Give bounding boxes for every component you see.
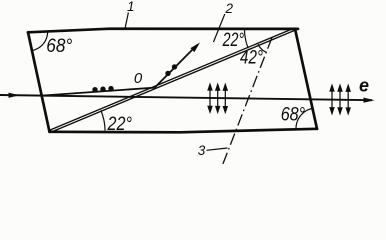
leader of label 1 [125,13,128,29]
svg-text:68°: 68° [281,105,306,126]
optic axis line 3 (dash-dot) [223,38,272,165]
svg-text:1: 1 [127,0,135,14]
leader of label 2 [214,14,225,42]
svg-text:2: 2 [225,1,234,16]
prism outline (calcite rhomb, faces) [28,29,317,133]
arrowhead on incident ray [9,93,20,98]
ordinary ray segment 1 (entry point to balsam cut) [42,88,155,96]
angle arc 68 bottom-right [296,108,312,128]
svg-text:0: 0 [134,70,143,87]
leader of label 3 [207,148,228,150]
arrowhead of reflected ordinary ray [190,43,200,53]
right face [295,29,317,129]
ray e (incident + transmitted extraordinary ray) [0,95,372,100]
angle arc 22 bottom-left [101,110,105,130]
bottom face [50,129,318,133]
svg-text:68°: 68° [46,36,72,57]
dots (perpendicular polarization) on segment 1 [92,87,97,92]
angle arc 22 top-right [245,29,249,48]
svg-text:e: e [359,76,369,96]
cut / balsam layer (double line from bottom-left corner to top-right corner) [50,28,295,132]
polarization arrows group outside right (vertical double-headed) [330,85,350,113]
polarization arrows group inside prism (vertical double-headed) [208,84,227,112]
svg-text:22°: 22° [107,114,133,135]
angle arc 42 (cut to optic axis) [258,44,266,52]
arrowhead at e ray tip [364,98,375,103]
top face [28,29,298,33]
left face [28,32,50,132]
angle arc 68 top-left [33,32,48,50]
dots on segment 2 [165,71,170,76]
svg-text:42°: 42° [240,48,263,69]
ordinary ray segment 2 (totally reflected at the cut) [155,45,197,88]
svg-text:3: 3 [198,143,206,158]
